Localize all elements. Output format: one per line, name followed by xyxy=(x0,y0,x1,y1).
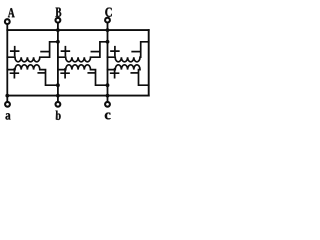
terminal B xyxy=(56,18,61,23)
polarity minus L2 xyxy=(38,72,45,74)
polarity minus L3 xyxy=(91,51,99,53)
polarity plus L5 xyxy=(111,47,119,56)
node b label xyxy=(56,111,61,120)
terminal a xyxy=(5,102,10,107)
wire: phase C vertical xyxy=(107,23,109,101)
terminal b xyxy=(56,102,61,107)
junction dot B top bus xyxy=(56,28,60,32)
polarity plus L4 xyxy=(61,69,69,78)
polarity plus L1 xyxy=(11,47,19,56)
polarity plus L2 xyxy=(11,69,19,78)
junction dot a bottom bus xyxy=(5,94,9,98)
wire: top bus xyxy=(7,29,148,31)
junction dot c bottom bus xyxy=(106,94,110,98)
junction dot C lower hook xyxy=(106,83,110,87)
junction dot b bottom bus xyxy=(56,94,60,98)
inductor L3 upper (unit 2) xyxy=(58,42,108,62)
node B label xyxy=(56,8,62,17)
wire: bottom bus xyxy=(7,95,148,97)
junction dot C top bus xyxy=(106,28,110,32)
terminal A xyxy=(5,19,10,24)
terminal C xyxy=(105,18,110,23)
inductor L2 lower (unit 1) xyxy=(7,65,58,85)
polarity plus L6 xyxy=(111,69,119,78)
polarity plus L3 xyxy=(62,47,70,56)
wire: phase B vertical xyxy=(57,23,59,101)
wire: right edge vertical xyxy=(148,30,150,96)
node c label xyxy=(105,113,111,120)
inductor L6 lower (unit 3) xyxy=(108,65,149,85)
node A label xyxy=(8,8,15,17)
polarity minus L4 xyxy=(88,72,95,74)
node a label xyxy=(5,113,10,119)
polarity minus L6 xyxy=(131,72,138,74)
polarity minus L5 xyxy=(132,51,140,53)
terminal c xyxy=(105,102,110,107)
junction dot B lower hook xyxy=(56,83,60,87)
inductor L4 lower (unit 2) xyxy=(58,65,108,85)
inductor L5 upper (unit 3) xyxy=(108,42,149,62)
node C label xyxy=(105,8,111,17)
polarity minus L1 xyxy=(41,51,49,53)
inductor L1 upper (unit 1) xyxy=(7,42,58,62)
junction dot C upper hook xyxy=(106,40,110,44)
junction dot B upper hook xyxy=(56,40,60,44)
wire: phase A vertical xyxy=(6,25,8,102)
